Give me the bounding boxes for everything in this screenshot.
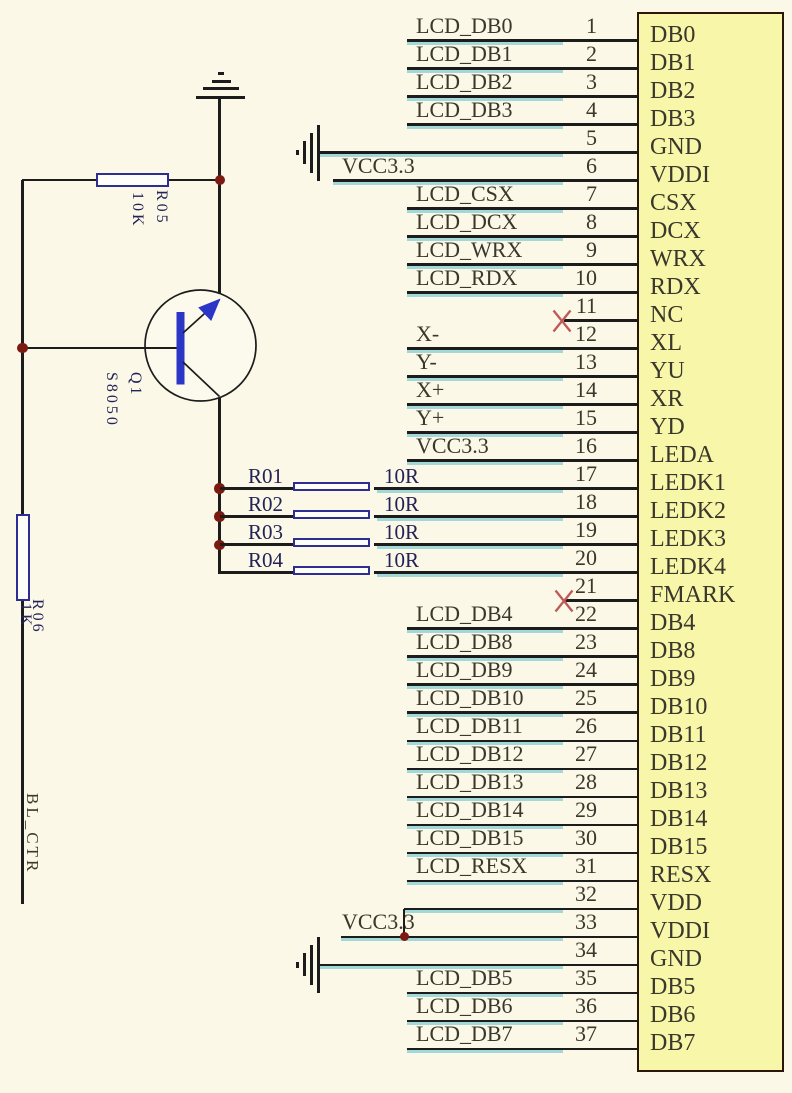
pin 25 wire highlight xyxy=(407,714,563,717)
transistor Q1 S8050 (NPN) xyxy=(140,284,265,409)
net label LCD_DB14 (pin 29) xyxy=(416,798,524,822)
wire left bus (R05 to BL_CTR end) xyxy=(21,180,24,904)
pin 13 wire xyxy=(407,375,637,378)
net label LCD_DB11 (pin 26) xyxy=(416,714,523,738)
junction dot at (220,517) xyxy=(214,511,225,522)
pin 24 wire xyxy=(407,683,637,686)
pin 35 wire xyxy=(407,992,637,995)
pin 21 number xyxy=(520,575,597,597)
pin 32 wire highlight xyxy=(404,910,563,913)
pin 29 wire xyxy=(407,824,637,827)
net label LCD_DB10 (pin 25) xyxy=(416,686,524,710)
pin 17 wire highlight xyxy=(377,490,563,493)
net label LCD_DB13 (pin 28) xyxy=(416,770,524,794)
pin 4 wire highlight xyxy=(407,126,563,129)
net label LCD_DB1 (pin 2) xyxy=(416,42,513,66)
pin 5 wire xyxy=(320,151,637,154)
pin 1 number xyxy=(520,15,597,37)
junction dot at VCC3.3 node (pin 33) xyxy=(400,932,409,941)
pin 7 name CSX xyxy=(650,190,770,216)
net label LCD_WRX (pin 9) xyxy=(416,238,522,262)
pin 7 wire highlight xyxy=(407,210,563,213)
pin 9 name WRX xyxy=(650,246,770,272)
net label VCC3.3 (pin 33) xyxy=(342,910,415,934)
pin 33 number xyxy=(520,911,597,933)
pin 19 wire highlight xyxy=(377,546,563,549)
pin 31 wire xyxy=(407,880,637,883)
pin 2 wire highlight xyxy=(407,70,563,73)
pin 13 wire highlight xyxy=(407,378,563,381)
pin 9 wire highlight xyxy=(407,266,563,269)
pin 19 number xyxy=(520,519,597,541)
pin 21 wire xyxy=(564,599,637,602)
pin 28 name DB13 xyxy=(650,778,770,804)
pin 32 name VDD xyxy=(650,890,770,916)
pin 21 name FMARK xyxy=(650,582,770,608)
pin 32 number xyxy=(520,883,597,905)
pin 10 name RDX xyxy=(650,274,770,300)
pin 11 wire xyxy=(564,319,637,322)
junction dot at (220,180) xyxy=(215,175,226,186)
pin 34 number xyxy=(520,939,597,961)
wire Q1 emitter down to R04 row xyxy=(218,396,221,574)
net label LCD_DB15 (pin 30) xyxy=(416,826,524,850)
pin 7 wire xyxy=(407,207,637,210)
net label BL_CTR xyxy=(25,793,40,874)
wire ground stem to Q1 collector xyxy=(218,98,221,299)
value label S8050 of Q1 xyxy=(104,372,118,428)
wire left bus to R03 xyxy=(220,543,295,546)
pin 19 wire xyxy=(374,543,637,546)
pin 24 wire highlight xyxy=(407,686,563,689)
pin 15 number xyxy=(520,407,597,429)
pin 33 wire xyxy=(341,936,637,939)
pin 15 wire highlight xyxy=(407,434,563,437)
pin 37 wire highlight xyxy=(407,1050,563,1053)
net label LCD_DB8 (pin 23) xyxy=(416,630,513,654)
ground symbol GND (pin 34 side) xyxy=(0,0,1,1)
pin 24 name DB9 xyxy=(650,666,770,692)
value label 1K of R06 xyxy=(18,603,32,629)
wire left bus to R01 xyxy=(220,487,295,490)
value label 10R of R01 xyxy=(384,466,419,486)
pin 12 number xyxy=(520,323,597,345)
designator label Q1 xyxy=(128,372,142,398)
connector P1 LCD interface (37-pin body) xyxy=(637,12,784,1072)
value label 10R of R04 xyxy=(384,550,419,570)
pin 20 number xyxy=(520,547,597,569)
pin 5 name GND xyxy=(650,134,770,160)
pin 34 wire highlight xyxy=(320,966,563,969)
pin 26 wire highlight xyxy=(407,742,563,745)
pin 1 wire highlight xyxy=(407,42,563,45)
pin 10 number xyxy=(520,267,597,289)
pin 3 wire highlight xyxy=(407,98,563,101)
pin 30 number xyxy=(520,827,597,849)
pin 16 number xyxy=(520,435,597,457)
pin 28 wire xyxy=(407,796,637,799)
ground symbol GND (pin 5 side) xyxy=(0,0,1,1)
pin 25 name DB10 xyxy=(650,694,770,720)
pin 35 wire highlight xyxy=(407,994,563,997)
pin 14 name XR xyxy=(650,386,770,412)
wire VDD-VDDI link (pins 32-33) xyxy=(403,909,406,938)
resistor R02 10R (in series with pin 18) xyxy=(293,510,370,519)
pin 10 wire xyxy=(407,291,637,294)
pin 29 number xyxy=(520,799,597,821)
pin 4 name DB3 xyxy=(650,106,770,132)
designator label R03 xyxy=(248,522,283,542)
pin 29 name DB14 xyxy=(650,806,770,832)
pin 22 wire xyxy=(407,627,637,630)
pin 25 wire xyxy=(407,711,637,714)
pin 5 number xyxy=(520,127,597,149)
designator label R02 xyxy=(248,494,283,514)
net label LCD_DB2 (pin 3) xyxy=(416,70,513,94)
pin 31 wire highlight xyxy=(407,882,563,885)
pin 23 wire xyxy=(407,655,637,658)
pin 6 wire xyxy=(333,179,637,182)
pin 2 name DB1 xyxy=(650,50,770,76)
net label LCD_DB3 (pin 4) xyxy=(416,98,513,122)
pin 8 number xyxy=(520,211,597,233)
pin 32 wire xyxy=(404,908,637,911)
pin 6 name VDDI xyxy=(650,162,770,188)
pin 7 number xyxy=(520,183,597,205)
pin 26 name DB11 xyxy=(650,722,770,748)
net label LCD_RESX (pin 31) xyxy=(416,854,527,878)
designator label R01 xyxy=(248,466,283,486)
pin 33 wire highlight xyxy=(341,938,563,941)
pin 16 name LEDA xyxy=(650,442,770,468)
pin 18 name LEDK2 xyxy=(650,498,770,524)
pin 27 name DB12 xyxy=(650,750,770,776)
net label LCD_DB12 (pin 27) xyxy=(416,742,524,766)
wire R05 left to left bus xyxy=(22,179,97,182)
pin 5 wire highlight xyxy=(320,154,563,157)
net label LCD_DB6 (pin 36) xyxy=(416,994,513,1018)
net label X- (pin 12) xyxy=(416,322,439,346)
earth ground symbol (top, collector of Q1) xyxy=(0,0,1,1)
no-connect X on pin 21 xyxy=(554,588,574,614)
resistor R05 10K (horizontal) xyxy=(96,173,169,187)
pin 22 name DB4 xyxy=(650,610,770,636)
value label 10K of R05 xyxy=(130,192,144,229)
pin 15 wire xyxy=(407,431,637,434)
net label VCC3.3 (pin 6) xyxy=(342,154,415,178)
pin 37 name DB7 xyxy=(650,1030,770,1056)
net label LCD_DCX (pin 8) xyxy=(416,210,517,234)
pin 23 number xyxy=(520,631,597,653)
pin 28 number xyxy=(520,771,597,793)
pin 8 wire xyxy=(407,235,637,238)
pin 8 name DCX xyxy=(650,218,770,244)
pin 22 number xyxy=(520,603,597,625)
net label LCD_DB5 (pin 35) xyxy=(416,966,513,990)
net label Y- (pin 13) xyxy=(416,350,437,374)
pin 14 wire xyxy=(407,403,637,406)
pin 34 wire xyxy=(320,964,637,967)
pin 30 wire highlight xyxy=(407,854,563,857)
pin 8 wire highlight xyxy=(407,238,563,241)
pin 18 number xyxy=(520,491,597,513)
pin 3 wire xyxy=(407,95,637,98)
pin 13 name YU xyxy=(650,358,770,384)
pin 14 wire highlight xyxy=(407,406,563,409)
pin 10 wire highlight xyxy=(407,294,563,297)
junction dot at (220,545) xyxy=(214,540,225,551)
designator label R05 xyxy=(154,190,168,226)
net label LCD_DB0 (pin 1) xyxy=(416,14,513,38)
pin 36 number xyxy=(520,995,597,1017)
value label 10R of R02 xyxy=(384,494,419,514)
pin 1 wire xyxy=(407,39,637,42)
pin 37 number xyxy=(520,1023,597,1045)
pin 3 number xyxy=(520,71,597,93)
pin 27 number xyxy=(520,743,597,765)
pin 17 number xyxy=(520,463,597,485)
net label LCD_DB7 (pin 37) xyxy=(416,1022,513,1046)
pin 33 name VDDI xyxy=(650,918,770,944)
pin 12 wire xyxy=(407,347,637,350)
pin 9 number xyxy=(520,239,597,261)
pin 14 number xyxy=(520,379,597,401)
resistor R06 1K (vertical, on BL_CTR line) xyxy=(16,514,31,601)
pin 26 number xyxy=(520,715,597,737)
resistor R04 10R (in series with pin 20) xyxy=(293,566,370,575)
junction dot at (220,489) xyxy=(214,483,225,494)
pin 4 wire xyxy=(407,123,637,126)
wire left bus to R02 xyxy=(220,515,295,518)
pin 23 wire highlight xyxy=(407,658,563,661)
pin 30 name DB15 xyxy=(650,834,770,860)
net label LCD_DB4 (pin 22) xyxy=(416,602,513,626)
pin 23 name DB8 xyxy=(650,638,770,664)
pin 18 wire xyxy=(374,515,637,518)
pin 37 wire xyxy=(407,1048,637,1051)
pin 3 name DB2 xyxy=(650,78,770,104)
net label LCD_RDX (pin 10) xyxy=(416,266,517,290)
junction dot at (22,348) xyxy=(17,343,28,354)
pin 11 number xyxy=(520,295,597,317)
pin 2 number xyxy=(520,43,597,65)
pin 20 wire xyxy=(374,571,637,574)
designator label R06 xyxy=(30,599,44,635)
pin 36 wire highlight xyxy=(407,1022,563,1025)
pin 17 name LEDK1 xyxy=(650,470,770,496)
pin 19 name LEDK3 xyxy=(650,526,770,552)
pin 25 number xyxy=(520,687,597,709)
pin 12 name XL xyxy=(650,330,770,356)
pin 6 wire highlight xyxy=(333,182,563,185)
pin 30 wire xyxy=(407,852,637,855)
pin 17 wire xyxy=(374,487,637,490)
pin 2 wire xyxy=(407,67,637,70)
pin 12 wire highlight xyxy=(407,350,563,353)
no-connect X on pin 11 xyxy=(552,308,572,334)
wire Q1 base xyxy=(23,347,177,350)
resistor R03 10R (in series with pin 19) xyxy=(293,538,370,547)
pin 1 name DB0 xyxy=(650,22,770,48)
pin 16 wire highlight xyxy=(407,462,563,465)
pin 20 name LEDK4 xyxy=(650,554,770,580)
pin 22 wire highlight xyxy=(407,630,563,633)
pin 36 name DB6 xyxy=(650,1002,770,1028)
pin 11 name NC xyxy=(650,302,770,328)
net label LCD_DB9 (pin 24) xyxy=(416,658,513,682)
pin 27 wire highlight xyxy=(407,770,563,773)
wire left bus to R04 xyxy=(220,571,295,574)
wire R05 right to ground-stem junction xyxy=(169,179,220,182)
pin 9 wire xyxy=(407,263,637,266)
pin 34 name GND xyxy=(650,946,770,972)
pin 16 wire xyxy=(407,459,637,462)
net label LCD_CSX (pin 7) xyxy=(416,182,514,206)
pin 4 number xyxy=(520,99,597,121)
designator label R04 xyxy=(248,550,283,570)
net label Y+ (pin 15) xyxy=(416,406,444,430)
value label 10R of R03 xyxy=(384,522,419,542)
pin 20 wire highlight xyxy=(377,574,563,577)
pin 35 name DB5 xyxy=(650,974,770,1000)
pin 31 name RESX xyxy=(650,862,770,888)
pin 6 number xyxy=(520,155,597,177)
pin 24 number xyxy=(520,659,597,681)
pin 35 number xyxy=(520,967,597,989)
pin 26 wire xyxy=(407,740,637,743)
pin 36 wire xyxy=(407,1020,637,1023)
pin 18 wire highlight xyxy=(377,518,563,521)
net label X+ (pin 14) xyxy=(416,378,444,402)
pin 13 number xyxy=(520,351,597,373)
pin 28 wire highlight xyxy=(407,798,563,801)
pin 27 wire xyxy=(407,768,637,771)
net label VCC3.3 (pin 16) xyxy=(416,434,489,458)
pin 29 wire highlight xyxy=(407,826,563,829)
pin 15 name YD xyxy=(650,414,770,440)
pin 31 number xyxy=(520,855,597,877)
resistor R01 10R (in series with pin 17) xyxy=(293,482,370,491)
